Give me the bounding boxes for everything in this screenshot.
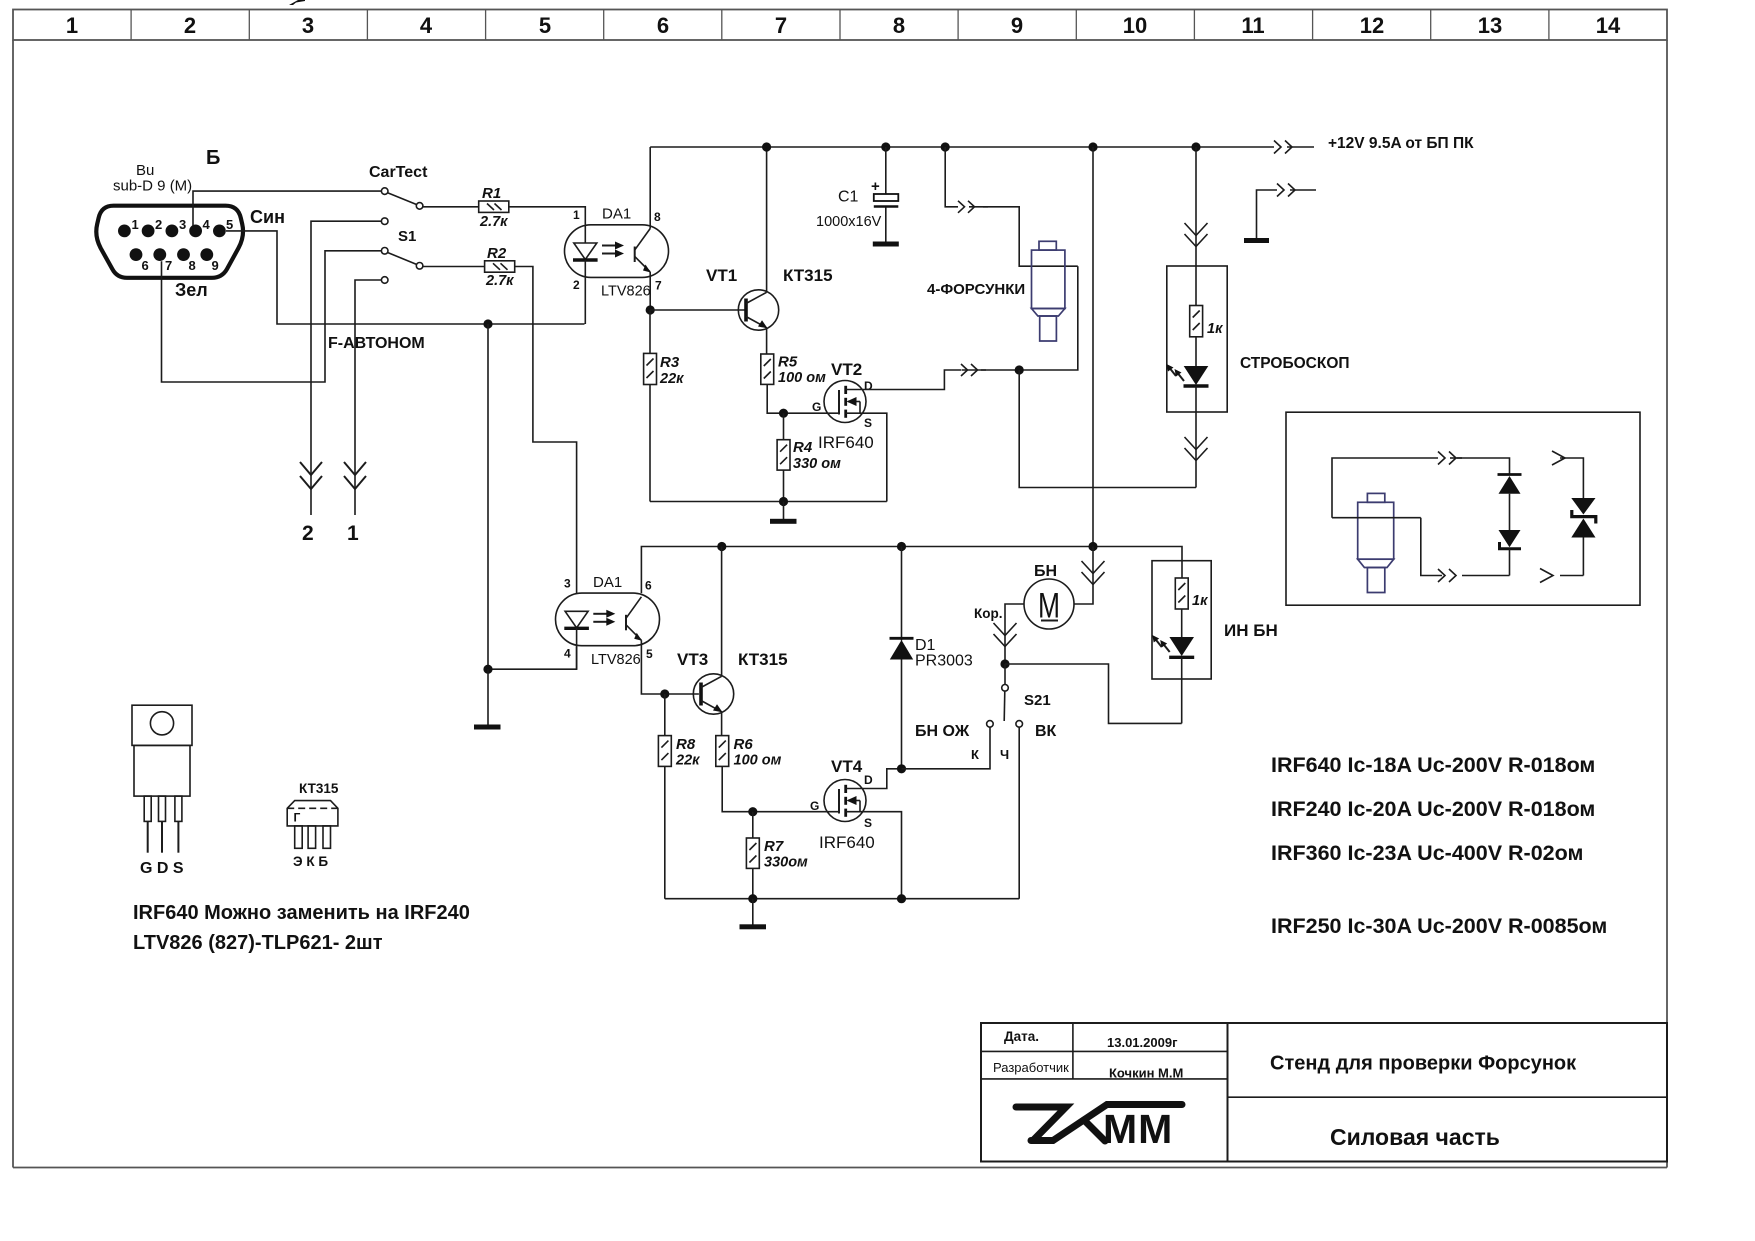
wire diode string bottom loop [1462, 575, 1510, 577]
wire R6 to VT4 gate [722, 766, 839, 811]
wire ground return pigtail +12V [1257, 190, 1278, 238]
transistor VT4 IRF640 MOSFET [810, 757, 875, 852]
label Зел [175, 280, 208, 300]
label ИН БН [1224, 621, 1278, 640]
wire ground bus upper section [650, 501, 887, 503]
wire S21 node to IN BN return [1005, 664, 1182, 723]
arrow +12V output [1274, 141, 1314, 154]
svg-text:22к: 22к [675, 753, 700, 769]
arrow Кор. [994, 623, 1017, 647]
svg-text:DA1: DA1 [602, 206, 631, 223]
arrow head output 2 [300, 462, 322, 489]
svg-text:R8: R8 [676, 736, 696, 753]
wire R5 to VT2 gate [767, 384, 839, 413]
node pin5/R8 junction [660, 689, 669, 698]
label S1 [398, 228, 416, 245]
svg-text:Кочкин М.М: Кочкин М.М [1109, 1066, 1183, 1081]
svg-text:К: К [971, 747, 979, 762]
connector pin 2 [142, 217, 163, 237]
wire +12V top rail [650, 146, 1274, 148]
label +12V 9.5A от БП ПК [1328, 135, 1474, 152]
switch CarTect [381, 188, 423, 209]
svg-text:Син: Син [250, 207, 285, 227]
svg-text:330 ом: 330 ом [793, 456, 841, 472]
wire arrow to node [981, 369, 1019, 371]
svg-text:9: 9 [1011, 13, 1023, 38]
svg-text:4-ФОРСУНКИ: 4-ФОРСУНКИ [927, 281, 1025, 298]
LED (ИН БН) [1152, 635, 1194, 723]
wire lower contact to arrow 1 [355, 280, 381, 515]
title block sheet name [1330, 1124, 1500, 1150]
svg-text:14: 14 [1596, 13, 1621, 38]
svg-text:R6: R6 [734, 736, 754, 753]
connector pin 7 [153, 248, 172, 273]
injector symbol (4-ФОРСУНКИ) [1032, 241, 1065, 341]
svg-text:S21: S21 [1024, 692, 1051, 709]
svg-text:22к: 22к [659, 371, 684, 387]
label 4-ФОРСУНКИ [927, 281, 1025, 298]
connector pin 8 [177, 248, 196, 273]
svg-text:VT1: VT1 [706, 266, 737, 285]
resistor R5 100om [761, 354, 826, 387]
op-amp U: optocoupler DA1 (lower half LTV826) [556, 574, 660, 669]
svg-text:DA1: DA1 [593, 574, 622, 591]
title block table [981, 1023, 1667, 1162]
svg-text:Э К Б: Э К Б [293, 854, 328, 869]
node rail/VT1 [762, 142, 771, 151]
svg-text:100 ом: 100 ом [778, 370, 826, 386]
TVS bidirectional suppressor [1571, 498, 1596, 576]
wire VT2 drain to injector net [846, 370, 961, 390]
svg-text:sub-D 9 (M): sub-D 9 (M) [113, 178, 192, 195]
svg-text:F-АВТОНОМ: F-АВТОНОМ [328, 335, 425, 352]
svg-text:4: 4 [420, 13, 433, 38]
wire opto1 pin8 to +12 rail [649, 147, 651, 229]
label 2 [302, 522, 314, 545]
svg-text:3: 3 [564, 577, 571, 591]
title block label Разработчик [993, 1060, 1069, 1075]
node S21 top junction [1000, 659, 1009, 668]
arrow ground return [1277, 184, 1316, 197]
ruler numbers 1-14 [66, 13, 1621, 38]
wire VT2 source to ground bus [846, 413, 887, 501]
label Кор. [974, 606, 1002, 621]
svg-text:2.7к: 2.7к [485, 273, 514, 289]
strobe box СТРОБОСКОП [1167, 266, 1227, 412]
arrow head output 1 [344, 462, 366, 489]
svg-text:CarTect: CarTect [369, 164, 428, 181]
wire through injector body [1332, 517, 1421, 519]
svg-text:5: 5 [646, 647, 653, 661]
ground lower-left [474, 669, 501, 729]
svg-text:1к: 1к [1207, 321, 1223, 337]
svg-text:S1: S1 [398, 228, 416, 245]
stub with arrow bottom right (TVS) [1540, 569, 1583, 583]
node junction Син/F line [483, 319, 492, 328]
svg-text:S: S [864, 816, 872, 830]
diode (upper, in box) [1498, 475, 1522, 531]
label э к б [293, 854, 328, 869]
arrow bottom in box [1438, 569, 1456, 582]
KT315 package drawing [287, 781, 339, 848]
resistor R2 2.7k [485, 245, 515, 289]
stub with arrow top right (TVS) [1552, 451, 1583, 498]
arrow strobe feed [1185, 223, 1208, 247]
label Ч [1000, 747, 1009, 762]
svg-text:СТРОБОСКОП: СТРОБОСКОП [1240, 355, 1350, 372]
svg-text:D: D [864, 773, 873, 787]
wire F line down to opto2 pin4 / ground [488, 324, 577, 669]
connector Bu sub-D 9 (M) body [96, 206, 243, 278]
label F-АВТОНОМ [328, 335, 425, 352]
label G D S [140, 860, 184, 877]
indicator box ИН БН [1152, 561, 1211, 679]
label sub-D 9 (M) [113, 178, 192, 195]
svg-text:R7: R7 [764, 838, 784, 855]
wire VT3 emitter to R6 [721, 712, 723, 736]
arrow strobe return [1185, 437, 1208, 461]
wire pin4 to CarTect contact [193, 191, 381, 225]
svg-text:R4: R4 [793, 439, 813, 456]
connector pin 3 [166, 217, 187, 237]
svg-text:+12V 9.5A от БП ПК: +12V 9.5A от БП ПК [1328, 135, 1474, 152]
wire ground bus lower section [665, 898, 1019, 900]
svg-text:IRF240 Ic-20A Uc-200V R-018о: IRF240 Ic-20A Uc-200V R-018ом [1271, 797, 1595, 821]
ground under C1 [873, 242, 899, 247]
svg-text:ММ: ММ [1103, 1106, 1173, 1152]
svg-text:Дата.: Дата. [1004, 1029, 1039, 1044]
resistor 1k (strobe) [1190, 266, 1223, 366]
label Б [206, 147, 220, 169]
svg-text:8: 8 [189, 258, 196, 273]
wire strobe feed from rail [1195, 147, 1197, 266]
node lower rail/D1 [897, 542, 906, 551]
transistor VT3 KT315 [677, 650, 788, 714]
resistor R6 100om [716, 736, 782, 769]
S1 lower contact [381, 277, 388, 284]
wire motor left (Кор.) to S21 node [1005, 604, 1024, 664]
wire strobe return with arrow [1195, 412, 1197, 488]
connector pin 9 [200, 248, 218, 273]
svg-text:1к: 1к [1192, 593, 1208, 609]
text IRF240 specs line 2 [1271, 797, 1595, 821]
label Син [250, 207, 285, 227]
svg-text:S: S [864, 416, 872, 430]
svg-text:D: D [864, 379, 873, 393]
svg-text:13: 13 [1478, 13, 1502, 38]
text IRF250 specs line 4 [1271, 914, 1607, 938]
svg-text:LTV826: LTV826 [591, 652, 641, 668]
wire VT4 source to bus [846, 812, 902, 899]
svg-text:Г: Г [294, 811, 301, 825]
svg-text:330ом: 330ом [764, 855, 808, 871]
wire VT1 collector to rail [766, 147, 768, 292]
node gate/R4 junction [779, 409, 788, 418]
node D1/VT4/K junction [897, 764, 906, 773]
label 1 [347, 522, 359, 545]
diode D1 PR3003 [890, 547, 973, 769]
resistor R1 2.7k [479, 185, 509, 230]
wire pin7 (Зел) to S1 pole [162, 251, 382, 382]
resistor R8 22k [658, 694, 700, 899]
switch S21 [987, 664, 1051, 727]
text IRF360 specs line 3 [1271, 841, 1583, 865]
wire node to VT1 base [650, 309, 746, 311]
svg-text:БН: БН [1034, 563, 1057, 580]
svg-text:R3: R3 [660, 354, 680, 371]
wire upper contact to arrow 2 [311, 221, 381, 515]
wire VT4 drain to D1 node [846, 769, 897, 789]
node opto1 pin7 / R3 / VT1 base [646, 305, 655, 314]
svg-text:Зел: Зел [175, 280, 208, 300]
node VT4 source/bus [897, 894, 906, 903]
wire bottom loop to injector right [1421, 518, 1442, 576]
arrow motor feed [1082, 561, 1105, 585]
svg-text:VT3: VT3 [677, 650, 708, 669]
svg-text:IRF640 Ic-18A Uc-200V R-018о: IRF640 Ic-18A Uc-200V R-018ом [1271, 753, 1595, 777]
wire injector left loop [1332, 458, 1438, 518]
node rail/lower-section feed [1088, 142, 1097, 151]
resistor 1k (ИН БН) [1175, 578, 1208, 637]
wire lower feed from rail [1092, 147, 1094, 547]
title block label Дата [1004, 1029, 1039, 1044]
svg-text:+: + [871, 178, 880, 195]
node R4/ground junction [779, 497, 788, 506]
logo КММ [1016, 1105, 1182, 1153]
arrow to injector (upper feed) [958, 201, 988, 213]
resistor R7 330om [746, 812, 808, 899]
motor БН [1024, 563, 1074, 629]
capacitor C1 1000x16V [816, 147, 898, 242]
svg-text:2: 2 [155, 217, 162, 232]
svg-text:9: 9 [212, 258, 219, 273]
wire opto1 pin7 to node [649, 272, 651, 310]
svg-text:4: 4 [203, 217, 211, 232]
wire pin5 (Син) to opto pin2 net [226, 231, 585, 324]
svg-text:Стенд для проверки Форсунок: Стенд для проверки Форсунок [1270, 1053, 1577, 1075]
node lower rail/VT3 collector [717, 542, 726, 551]
connector pin 1 [118, 217, 139, 237]
svg-text:1: 1 [347, 522, 359, 545]
injector symbol in box [1358, 493, 1394, 592]
svg-text:5: 5 [226, 217, 233, 232]
svg-text:БН ОЖ: БН ОЖ [915, 723, 970, 740]
node junction at opto2 pin4 [483, 665, 492, 674]
svg-text:2.7к: 2.7к [479, 214, 508, 230]
connector pin 4 [189, 217, 210, 237]
wire CarTect to R1 [423, 206, 479, 208]
svg-text:IRF360 Ic-23A Uc-400V R-02ом: IRF360 Ic-23A Uc-400V R-02ом [1271, 841, 1583, 865]
svg-text:G D S: G D S [140, 860, 184, 877]
svg-text:3: 3 [302, 13, 314, 38]
svg-text:КТ315: КТ315 [299, 781, 339, 796]
resistor R4 330om [777, 413, 841, 501]
wire node to K contact [902, 727, 991, 769]
label CarTect [369, 164, 428, 181]
svg-text:Б: Б [206, 147, 220, 169]
svg-text:Ч: Ч [1000, 747, 1009, 762]
svg-text:G: G [810, 799, 819, 813]
svg-text:R1: R1 [482, 185, 501, 202]
connector pin 5 [213, 217, 233, 237]
svg-text:2: 2 [184, 13, 196, 38]
svg-text:5: 5 [539, 13, 551, 38]
svg-text:1: 1 [66, 13, 78, 38]
svg-text:100 ом: 100 ом [734, 753, 782, 769]
ruler column dividers [131, 10, 1549, 41]
ground symbol upper section [770, 502, 797, 524]
transistor VT1 KT315 [706, 266, 833, 330]
svg-text:10: 10 [1123, 13, 1147, 38]
ground symbol pigtail [1244, 238, 1269, 243]
svg-text:7: 7 [165, 258, 172, 273]
svg-text:8: 8 [893, 13, 905, 38]
ground symbol lower section [740, 899, 767, 930]
text IRF640 specs line 1 [1271, 753, 1595, 777]
label БН ОЖ [915, 723, 970, 740]
title block author value [1109, 1066, 1183, 1081]
node rail/strobe feed [1191, 142, 1200, 151]
svg-text:6: 6 [657, 13, 669, 38]
label СТРОБОСКОП [1240, 355, 1350, 372]
svg-text:Bu: Bu [136, 162, 154, 179]
svg-text:11: 11 [1241, 13, 1264, 38]
svg-text:Силовая часть: Силовая часть [1330, 1124, 1500, 1150]
zener diode (lower, in box) [1499, 530, 1522, 576]
title block doc name [1270, 1053, 1577, 1075]
svg-text:КТ315: КТ315 [783, 266, 833, 285]
connector pin 6 [130, 248, 149, 273]
svg-text:2: 2 [573, 278, 580, 292]
svg-text:ИН БН: ИН БН [1224, 621, 1278, 640]
svg-text:VT2: VT2 [831, 360, 862, 379]
svg-text:7: 7 [655, 279, 662, 293]
svg-text:12: 12 [1360, 13, 1384, 38]
svg-text:LTV826 (827)-TLP621- 2шт: LTV826 (827)-TLP621- 2шт [133, 932, 383, 954]
svg-text:6: 6 [142, 258, 149, 273]
wire motor right to rail [1074, 547, 1093, 605]
svg-text:3: 3 [179, 217, 186, 232]
svg-text:1000x16V: 1000x16V [816, 214, 882, 230]
node injector/strobe return [1015, 365, 1024, 374]
label К [971, 747, 979, 762]
svg-text:13.01.2009г: 13.01.2009г [1107, 1035, 1178, 1050]
svg-text:IRF640: IRF640 [819, 833, 875, 852]
arrow top in box [1438, 452, 1462, 465]
LED (strobe) [1167, 364, 1209, 412]
node lower rail/motor branch [1088, 542, 1097, 551]
wire injector feed upper [945, 147, 958, 207]
svg-text:ВК: ВК [1035, 723, 1057, 740]
svg-text:7: 7 [775, 13, 787, 38]
wire opto2 pin5 to VT3 base [641, 640, 699, 694]
svg-text:IRF640 Можно заменить на IRF24: IRF640 Можно заменить на IRF240 [133, 902, 470, 924]
svg-text:8: 8 [654, 210, 661, 224]
wire lower rail [641, 547, 1182, 594]
text replacement note line 1 [133, 902, 470, 924]
wire ВК contact to bus [1018, 727, 1020, 899]
title block date value [1107, 1035, 1178, 1050]
svg-text:4: 4 [564, 647, 571, 661]
wire S1 to R2 [423, 266, 485, 268]
svg-text:R2: R2 [487, 245, 507, 262]
wire injector right side down to node [1019, 266, 1078, 370]
TO-220 package drawing [132, 705, 192, 853]
svg-text:1: 1 [132, 217, 139, 232]
svg-text:G: G [812, 400, 821, 414]
svg-text:R5: R5 [778, 354, 798, 371]
top edge artifact mark [289, 0, 305, 5]
arrow to injector (lower feed) [961, 364, 986, 376]
resistor R3 22k [644, 310, 685, 502]
S1 upper contact [381, 218, 388, 225]
wire strobe return to injector node [1019, 370, 1196, 488]
wire VT1 emitter to R5 [766, 328, 768, 354]
node rail/C1 [881, 142, 890, 151]
op-amp U: optocoupler DA1 (upper half LTV826) [565, 206, 669, 325]
wire R2 to opto2 pin3 [515, 267, 577, 594]
label Bu [136, 162, 154, 179]
svg-text:IRF640: IRF640 [818, 433, 874, 452]
wire arrow to injector body [983, 207, 1078, 266]
label ВК [1035, 723, 1057, 740]
svg-text:2: 2 [302, 522, 314, 545]
node rail/injector feed [941, 142, 950, 151]
text replacement note line 2 [133, 932, 383, 954]
equivalent-circuit box top right [1286, 412, 1640, 605]
wire R1 to opto1 pin1 [509, 207, 586, 225]
svg-text:VT4: VT4 [831, 757, 863, 776]
wire VT3 collector to lower rail [721, 547, 723, 677]
svg-text:Разработчик: Разработчик [993, 1060, 1069, 1075]
svg-text:КТ315: КТ315 [738, 650, 788, 669]
svg-text:1: 1 [573, 208, 580, 222]
svg-text:6: 6 [645, 579, 652, 593]
svg-text:LTV826: LTV826 [601, 284, 651, 300]
svg-text:C1: C1 [838, 189, 859, 206]
svg-text:IRF250 Ic-30A Uc-200V R-0085: IRF250 Ic-30A Uc-200V R-0085ом [1271, 914, 1607, 938]
svg-text:Кор.: Кор. [974, 606, 1002, 621]
switch S1 [381, 248, 423, 270]
svg-text:D1: D1 [915, 637, 936, 654]
transistor VT2 IRF640 MOSFET [812, 360, 874, 452]
wire arrow to diode string [1457, 458, 1510, 475]
node gate/R7 junction [748, 807, 757, 816]
svg-text:PR3003: PR3003 [915, 653, 973, 670]
node R7/ground junction [748, 894, 757, 903]
